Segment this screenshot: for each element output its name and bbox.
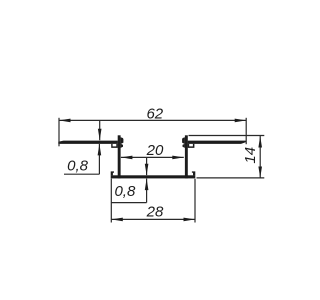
arrow 20 left <box>121 156 132 160</box>
dim 14 extension line top <box>189 135 265 137</box>
dim 0,8 bottom upper arrow line <box>146 157 148 175</box>
arrow 0,8 left up <box>98 144 102 156</box>
left wall with top tab <box>118 135 121 178</box>
arrow 0,8 left down <box>98 129 102 141</box>
svg-text:28: 28 <box>146 203 164 220</box>
bottom left lip <box>111 171 114 175</box>
svg-text:0,8: 0,8 <box>67 157 89 174</box>
dim 62 extension line right <box>245 118 247 144</box>
arrow 0,8 bottom up <box>145 179 149 191</box>
right wall with top tab <box>185 135 188 178</box>
bottom bar <box>111 175 196 178</box>
arrow 28 right <box>184 218 196 222</box>
dim 28 extension line right <box>194 179 196 223</box>
left screw boss <box>111 144 118 148</box>
dim 14 line <box>259 136 261 178</box>
dim 28 line <box>111 218 195 220</box>
right flange <box>188 141 247 144</box>
bottom right lip <box>192 171 195 175</box>
left clip bump <box>121 137 124 148</box>
arrow 62 right <box>235 119 247 123</box>
svg-text:20: 20 <box>146 142 164 159</box>
dim 20 line <box>121 156 184 158</box>
arrow 20 right <box>172 156 184 160</box>
dim 0,8 bottom lower arrow line <box>146 179 148 203</box>
dim 0,8 left leader <box>64 173 99 175</box>
arrow 0,8 bottom down <box>145 164 149 176</box>
arrow 14 up <box>258 136 262 148</box>
dim 62 line <box>59 119 246 121</box>
right clip bump <box>182 137 185 148</box>
dim 28 extension line left <box>110 179 112 223</box>
arrow 14 down <box>258 167 262 179</box>
arrow 62 left <box>59 119 71 123</box>
svg-text:62: 62 <box>146 106 163 123</box>
dim 0,8 left upper arrow line <box>99 120 101 140</box>
right screw boss <box>188 144 195 148</box>
arrow 28 left <box>111 218 123 222</box>
svg-text:0,8: 0,8 <box>114 183 136 200</box>
dim 62 extension line left <box>58 118 60 147</box>
dim 0,8 left lower arrow line <box>98 144 100 174</box>
dim 0,8 bottom leader <box>111 202 147 204</box>
left flange <box>58 141 118 144</box>
dim 14 extension line bottom <box>197 177 265 179</box>
svg-text:14: 14 <box>242 147 259 164</box>
